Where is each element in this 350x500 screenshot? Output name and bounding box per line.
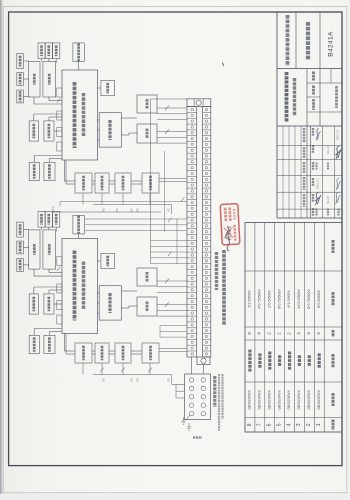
- signal wire group to strip (display bus): [151, 240, 188, 242]
- power supply box PS1 right of mainboard: [101, 253, 115, 268]
- mainboard left edge connector stubs (system 1): [57, 257, 62, 266]
- wires mainboard to driver board: [98, 119, 100, 121]
- svg-text:6: 6: [267, 423, 273, 426]
- revision grid header labels: [303, 128, 306, 143]
- PE ground drops below power chain (system 1): [82, 363, 84, 375]
- connector note text lines: [218, 374, 220, 431]
- svg-text:2: 2: [286, 332, 291, 335]
- svg-text:GB5023/RVV: GB5023/RVV: [277, 389, 281, 410]
- svg-text:1*2.5/500V: 1*2.5/500V: [248, 290, 252, 308]
- svg-text:4: 4: [257, 332, 262, 335]
- keyboard K2 box: [29, 230, 40, 269]
- driver board box DR1: [99, 286, 121, 320]
- label: computer head cable harness: [215, 252, 218, 290]
- svg-text:2004.3.2: 2004.3.2: [316, 178, 320, 190]
- svg-text:B4241A: B4241A: [328, 31, 335, 57]
- svg-text:GB5023/RVV: GB5023/RVV: [317, 389, 321, 410]
- label: inside IC-card dispenser computer cabinet: [222, 250, 226, 325]
- main controller board U1 (encoder control mainboard, single pump dual nozzle): [62, 239, 98, 334]
- svg-text:4: 4: [296, 332, 301, 335]
- power chain boxes (power board / transformer / switch supply / filter) system 2: [75, 173, 92, 193]
- svg-text:PE: PE: [130, 378, 134, 382]
- programmer port box P1: [73, 215, 84, 234]
- svg-text:5: 5: [276, 423, 282, 426]
- svg-text:4*1.0/500V: 4*1.0/500V: [287, 290, 291, 308]
- svg-text:PE: PE: [167, 378, 171, 382]
- wire mainboard to power box: [98, 87, 101, 89]
- signal wire group to strip (encoder bus): [151, 251, 188, 253]
- encoder boxes E2 E1: [29, 335, 39, 353]
- mainboard left edge connector stubs (system 2): [57, 88, 62, 97]
- svg-text:PE: PE: [136, 378, 140, 382]
- keyboard K1 box: [43, 230, 56, 269]
- display board boxes D2 D1: [29, 294, 38, 314]
- PE bus branches into junction connector block: [172, 384, 185, 386]
- title block project cell: fuel dispenser computer system diagram: [319, 12, 321, 69]
- svg-text:4*0.75/500V: 4*0.75/500V: [258, 289, 262, 309]
- svg-text:4: 4: [306, 332, 311, 335]
- svg-text:2: 2: [267, 332, 272, 335]
- left peripheral boxes (IR / display / nixie) system 1: [17, 222, 24, 237]
- double wire filter to terminal strip: [159, 178, 187, 180]
- wires mainboard to driver board: [98, 292, 100, 294]
- wires mainboard down to power chain: [64, 160, 66, 181]
- PE ground drops below power chain (system 2): [82, 193, 84, 205]
- svg-text:PE: PE: [115, 208, 119, 212]
- title block revision grid (mark/count/zone/file/sign/date): [282, 126, 284, 218]
- svg-text:PE: PE: [136, 208, 140, 212]
- keyboard K3 box: [43, 61, 56, 97]
- indicator boxes above keyboards (system 2): [38, 43, 45, 59]
- svg-text:4: 4: [316, 332, 321, 335]
- indicator boxes above keyboards (system 1): [38, 211, 45, 227]
- svg-text:8: 8: [247, 423, 253, 426]
- wires strip bottom cap to connector block: [203, 365, 205, 374]
- svg-text:2004.1.4: 2004.1.4: [316, 129, 320, 141]
- PE collector bus: [93, 374, 172, 376]
- connector block label: computer head cable harness: [213, 376, 216, 407]
- title block drawing-name cell: dual pump four nozzle wiring diagram (IC card): [306, 69, 308, 127]
- servo motor box M1: [137, 297, 157, 316]
- svg-text:PE: PE: [167, 208, 171, 212]
- wires keyboards to mainboard with break marks (system 2): [33, 97, 35, 104]
- svg-text:14*0.5/500V: 14*0.5/500V: [297, 289, 301, 309]
- wires between power chain boxes: [92, 180, 95, 182]
- computer head junction connector block: [185, 374, 211, 420]
- lower signal wires into strip cells: [160, 325, 187, 327]
- BOM table outline: [245, 223, 342, 433]
- wires peripherals to keyboard: [23, 229, 29, 231]
- wires encoders to mainboard: [33, 156, 35, 163]
- terminal strip top cap: [187, 99, 211, 107]
- ground symbols below connector block: [181, 417, 185, 424]
- approve/check labels small: [315, 209, 317, 216]
- wire programmer port to mainboard: [78, 234, 80, 239]
- svg-text:2: 2: [276, 332, 281, 335]
- svg-text:2*0.5/500V: 2*0.5/500V: [267, 290, 271, 308]
- svg-text:04.3.4: 04.3.4: [326, 146, 330, 154]
- title block company cell: Jiangyin Furen Hi-Tech Co Ltd: [295, 12, 297, 69]
- terminal strip left column: [187, 107, 197, 357]
- servo motor box M3: [137, 124, 157, 143]
- wires display boards to mainboard: [33, 114, 35, 121]
- svg-text:7: 7: [257, 423, 263, 426]
- wires indicators to keyboards: [41, 59, 43, 62]
- svg-text:GB5023/RVV: GB5023/RVV: [267, 389, 271, 410]
- long vertical harness bus wires: [150, 99, 152, 264]
- svg-text:GB5023/RVV: GB5023/RVV: [258, 389, 262, 410]
- keyboard K4 box: [29, 61, 40, 97]
- wire mainboard to power box: [98, 260, 101, 262]
- BOM table row separators: [254, 223, 256, 433]
- svg-text:PE: PE: [130, 208, 134, 212]
- programmer port box P2: [73, 43, 84, 62]
- driver board box DR2: [99, 113, 121, 147]
- title block scale/weight/stage-mark cells: [319, 69, 321, 127]
- svg-text:GB5023/RVV: GB5023/RVV: [248, 389, 252, 410]
- display board boxes D4 D3: [29, 121, 38, 141]
- svg-text:GB5023/RVV: GB5023/RVV: [297, 389, 301, 410]
- red approval stamp: [220, 204, 240, 245]
- svg-text:GB5023/RVV: GB5023/RVV: [287, 389, 291, 410]
- terminal strip bottom cap: [197, 357, 210, 365]
- main controller board U2 (encoder control mainboard, single pump dual nozzle): [62, 70, 98, 160]
- svg-text:PE: PE: [102, 208, 106, 212]
- title block sheet-count cells: [330, 69, 332, 84]
- wires peripherals to keyboard: [23, 60, 29, 62]
- power chain boxes (power board / transformer / switch supply / filter) system 1: [75, 343, 92, 363]
- title block signature columns: design/check/process/approve: [310, 126, 312, 218]
- BOM table column separators: [245, 270, 342, 272]
- svg-text:4: 4: [286, 423, 292, 426]
- wires driver to servo boxes: [121, 290, 137, 292]
- svg-text:8*0.75/500V: 8*0.75/500V: [307, 289, 311, 309]
- servo motor box M4: [137, 95, 157, 113]
- svg-text:3: 3: [296, 423, 302, 426]
- svg-text:04.3.8: 04.3.8: [326, 196, 330, 204]
- svg-text:8*0.75/500V: 8*0.75/500V: [277, 289, 281, 309]
- svg-text:2: 2: [306, 423, 312, 426]
- handwriting over stamp: [226, 226, 230, 251]
- wires indicators to keyboards: [41, 227, 43, 230]
- PE collector bus: [93, 204, 172, 206]
- svg-text:6*0.5/500V: 6*0.5/500V: [317, 290, 321, 308]
- svg-text:1: 1: [316, 423, 322, 426]
- wires between power chain boxes: [92, 350, 95, 352]
- wires servo boxes to terminal strip with break marks: [157, 280, 187, 282]
- power supply box PS2 right of mainboard: [101, 80, 115, 95]
- wires display boards to mainboard: [33, 287, 35, 294]
- svg-text:9: 9: [247, 332, 252, 335]
- wires servo boxes to terminal strip with break marks: [157, 107, 187, 109]
- title block outline: [276, 12, 278, 218]
- encoder boxes E4 E3: [29, 162, 39, 180]
- wires keyboards to mainboard with break marks (system 1): [33, 269, 35, 276]
- wires driver to servo boxes: [121, 117, 137, 119]
- terminal strip cells and screw circles: [187, 106, 197, 108]
- handwritten signatures in title block: [316, 128, 321, 140]
- svg-text:PE: PE: [102, 378, 106, 382]
- terminal strip right column: [203, 107, 211, 357]
- mains feed wire into terminal strip top cap: [151, 98, 188, 100]
- gap area long wires with PE labels: [53, 211, 161, 213]
- svg-text:GB5023/RVV: GB5023/RVV: [307, 389, 311, 410]
- left peripheral boxes (IR / display / nixie) system 2: [17, 54, 24, 69]
- signal wire group from system 2 peripherals to strip: [85, 218, 187, 220]
- stray scan mark: [223, 63, 224, 67]
- svg-text:2004.3.5: 2004.3.5: [336, 129, 340, 141]
- wires mainboard down to power chain: [64, 334, 66, 352]
- wires encoders to mainboard: [33, 329, 35, 336]
- servo motor box M2: [137, 268, 157, 286]
- double wire filter to terminal strip: [159, 348, 187, 350]
- wire programmer port to mainboard: [78, 61, 80, 70]
